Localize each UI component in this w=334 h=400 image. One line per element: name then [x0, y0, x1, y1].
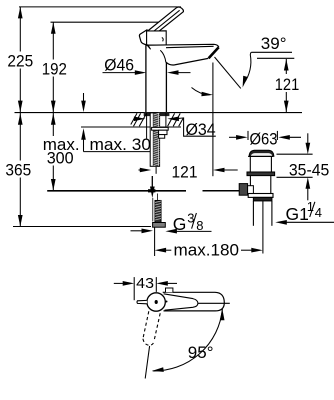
svg-text:43: 43	[136, 275, 154, 292]
svg-text:39°: 39°	[261, 34, 287, 53]
svg-text:G: G	[173, 214, 187, 234]
aerator face (dark band)	[209, 47, 219, 58]
95 arc arrowhead bottom	[152, 367, 164, 372]
faucet centerline below collar	[154, 227, 156, 256]
svg-text:G1: G1	[286, 204, 309, 224]
lever blade	[147, 7, 184, 37]
waste collar ring	[247, 172, 275, 176]
39 shelf	[252, 51, 292, 53]
spout top line inner	[166, 46, 214, 47]
lever blade inner line	[150, 10, 179, 34]
bottom extension line (hose end level y=226.5)	[13, 226, 151, 228]
svg-text:121: 121	[172, 162, 198, 181]
arrow 225 top (up)	[18, 7, 23, 19]
35-45 dimension	[277, 153, 313, 155]
plan dashed grip	[143, 311, 160, 345]
waste side knob (hatched)	[239, 184, 247, 196]
95 arc arrowhead top	[220, 309, 225, 321]
waste pipe top ring	[253, 197, 272, 201]
spout top line outer	[147, 44, 219, 47]
max30 dimension: upper arrow	[83, 93, 85, 104]
arrow max300 top (up at counter)	[51, 113, 56, 125]
plan lever tab left	[137, 300, 147, 303]
counter hatch left	[131, 113, 137, 124]
G3/8 arrows	[131, 230, 146, 232]
counter hatch right	[168, 113, 175, 126]
svg-text:Ø34: Ø34	[186, 120, 216, 139]
extension line top (lever tip level y=7)	[19, 6, 181, 8]
pop-up rod vertical + joint	[151, 176, 153, 194]
svg-text:4: 4	[315, 205, 322, 220]
mounting nut	[152, 127, 169, 130]
hole wall left	[146, 113, 148, 139]
lever front beak	[139, 30, 146, 45]
dim line 192/max300 at x=53.3	[52, 22, 54, 59]
svg-text:Ø63: Ø63	[250, 129, 278, 148]
faucet body right edge	[165, 63, 167, 113]
Ø63 dimension	[229, 136, 244, 138]
121 right dimension: top extension	[257, 57, 294, 59]
waste bottom flange	[248, 194, 273, 198]
hole wall right	[165, 113, 167, 127]
cartridge cap	[147, 31, 167, 45]
Ø34 arrows at hole	[137, 118, 142, 120]
cap curl detail	[162, 38, 163, 42]
extension line 192 level (y=22)	[51, 21, 164, 23]
pop-up rod horizontal (left segment)	[47, 190, 186, 192]
95 arc	[153, 309, 223, 371]
spout underside	[166, 58, 208, 65]
max30 lower arrow + shelf	[81, 128, 86, 140]
svg-text:300: 300	[47, 149, 74, 168]
svg-text:35-45: 35-45	[289, 161, 329, 180]
arrow 225 bottom (down at counter)	[18, 101, 23, 113]
hose collar	[153, 223, 166, 228]
arrow 192 bottom (down at counter)	[51, 101, 56, 113]
plan small dot	[166, 301, 168, 303]
water flow curved arrow	[192, 88, 210, 95]
39 arc arrowhead	[243, 76, 248, 88]
waste body	[249, 176, 251, 194]
base flange	[144, 112, 170, 116]
svg-text:192: 192	[42, 59, 67, 78]
pop-up rod horizontal (right segment)	[203, 190, 240, 192]
svg-text:365: 365	[5, 160, 31, 179]
waste neck	[249, 156, 251, 172]
hose thin line above thread	[157, 194, 159, 201]
plan top bump	[166, 288, 173, 292]
hose G3/8 thread	[155, 201, 161, 223]
svg-text:225: 225	[7, 51, 33, 70]
flange underline	[248, 155, 273, 157]
aerator extension line down	[212, 63, 214, 177]
arrow 365 top (up at counter)	[18, 113, 23, 125]
svg-text:95°: 95°	[188, 343, 214, 362]
arrow max300 bottom (down at rod line)	[51, 179, 56, 191]
waste flange (top disc)	[249, 150, 274, 156]
plan circle (cap)	[147, 293, 165, 311]
max.180 dimension	[155, 248, 167, 253]
svg-text:Ø46: Ø46	[104, 56, 134, 75]
plan center dot	[155, 300, 158, 304]
plan inner lever taper	[164, 294, 198, 310]
svg-text:8: 8	[196, 218, 203, 233]
svg-text:121: 121	[275, 75, 300, 94]
plan centerline right	[198, 302, 230, 304]
Ø46 right arrow	[167, 70, 179, 75]
121 right dim line	[285, 59, 287, 74]
dark notch under beak	[147, 45, 151, 50]
faucet body left edge	[145, 45, 147, 112]
body-spout seam	[160, 50, 166, 62]
svg-text:max. 30: max. 30	[90, 135, 152, 154]
dim line 225/365 at x=20.3	[19, 7, 21, 52]
countertop bottom line	[81, 126, 181, 128]
121 left dimension	[139, 169, 144, 171]
43 dimension	[114, 282, 127, 284]
39 arc	[244, 52, 252, 83]
waste pipe	[252, 201, 254, 226]
countertop top line	[15, 112, 303, 114]
plan outer capsule	[163, 292, 225, 311]
threaded shank below base	[150, 113, 159, 166]
arrow 192 top (up)	[51, 22, 56, 34]
39 degree annotation: diagonal line	[215, 57, 241, 88]
centerline bit below shank	[155, 167, 157, 174]
waste centerline	[262, 201, 264, 254]
svg-text:max.180: max.180	[174, 240, 240, 259]
plan radial line	[145, 346, 149, 379]
arrow 365 bottom (down)	[18, 215, 23, 227]
